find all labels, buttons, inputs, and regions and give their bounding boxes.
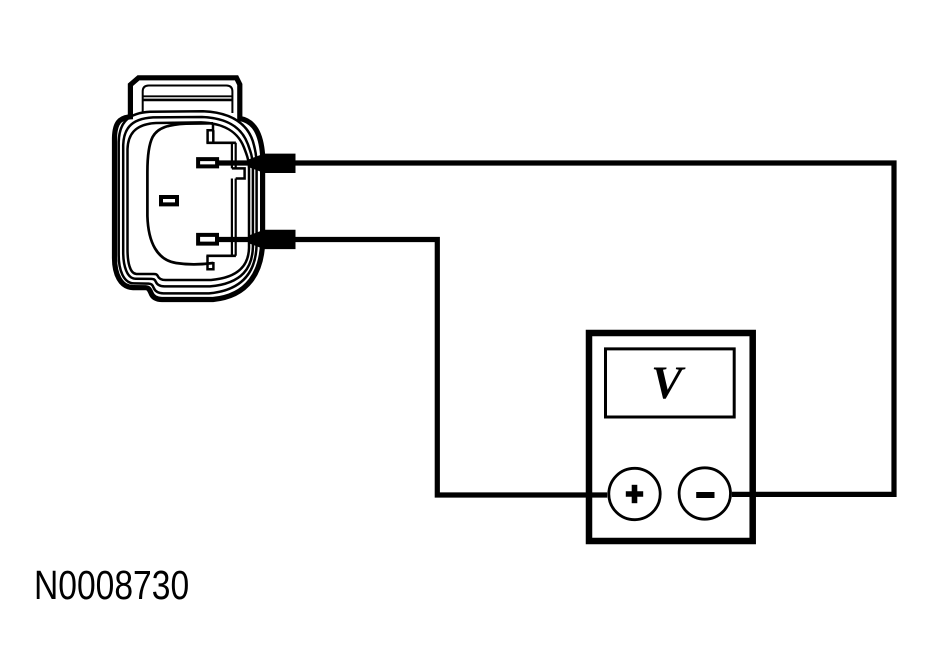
- svg-text:V: V: [651, 357, 686, 409]
